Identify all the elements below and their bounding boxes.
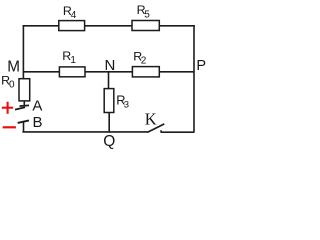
- wire middle M-R1 segment: [23, 71, 60, 73]
- svg-text:0: 0: [9, 80, 15, 91]
- battery terminal B plate: [18, 120, 29, 123]
- svg-text:4: 4: [71, 10, 77, 21]
- resistor R3 value label: [116, 93, 129, 111]
- wire switch K to right rail: [161, 130, 195, 132]
- resistor R0: [19, 79, 30, 101]
- wire battery B stem: [23, 121, 25, 132]
- resistor R5: [132, 21, 159, 31]
- svg-text:K: K: [145, 110, 157, 129]
- resistor R1 value label: [62, 49, 76, 66]
- wire top-right segment: [159, 25, 195, 27]
- svg-text:N: N: [105, 57, 116, 74]
- wire R3 to node Q: [108, 112, 110, 133]
- svg-text:B: B: [33, 114, 43, 131]
- wire right rail: [193, 25, 195, 132]
- svg-text:3: 3: [124, 99, 129, 110]
- wire node N to R3: [108, 72, 110, 90]
- resistor R0 value label: [1, 74, 15, 91]
- wire top-left segment: [23, 25, 60, 27]
- battery positive polarity mark +: [2, 102, 13, 114]
- resistor R4: [59, 21, 85, 31]
- resistor R5 value label: [137, 3, 151, 20]
- resistor R3: [104, 89, 114, 113]
- battery terminal A crossbar: [20, 104, 30, 107]
- wire left rail: [22, 25, 24, 79]
- svg-text:1: 1: [70, 55, 76, 66]
- battery negative polarity mark -: [3, 126, 16, 128]
- resistor R2: [132, 67, 159, 77]
- resistor R4 value label: [63, 4, 77, 21]
- wire middle R1-R2 segment: [84, 71, 133, 73]
- resistor R1: [59, 67, 85, 77]
- svg-text:P: P: [196, 58, 206, 74]
- wire middle R2-P segment: [159, 71, 195, 73]
- svg-text:5: 5: [144, 9, 150, 20]
- svg-text:Q: Q: [103, 133, 115, 150]
- wire R0 bottom stub: [23, 101, 25, 106]
- svg-text:A: A: [32, 98, 42, 115]
- switch K blade: [147, 124, 164, 132]
- svg-text:2: 2: [141, 55, 147, 66]
- battery terminal A plate: [15, 107, 25, 109]
- wire bottom: [22, 131, 147, 133]
- resistor R2 value label: [133, 49, 147, 66]
- wire top-middle segment: [84, 25, 133, 27]
